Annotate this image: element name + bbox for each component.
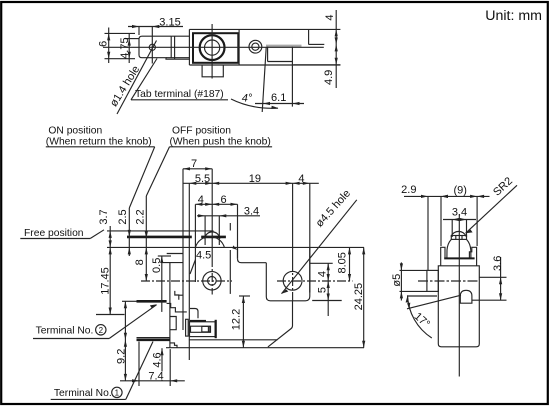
svg-text:4: 4: [198, 194, 204, 206]
svg-text:4: 4: [298, 173, 304, 185]
svg-text:(When push the knob): (When push the knob): [170, 137, 271, 148]
svg-text:3.6: 3.6: [492, 256, 504, 271]
svg-text:0.5: 0.5: [151, 258, 163, 273]
svg-text:19: 19: [249, 173, 261, 185]
svg-text:ø5: ø5: [391, 274, 403, 287]
svg-text:17.45: 17.45: [99, 267, 111, 295]
svg-text:(When return the knob): (When return the knob): [46, 137, 152, 148]
svg-text:6: 6: [97, 41, 109, 47]
svg-text:5: 5: [317, 287, 329, 293]
svg-text:24.25: 24.25: [353, 283, 365, 311]
svg-text:Tab terminal (#187): Tab terminal (#187): [135, 89, 224, 100]
svg-text:2.9: 2.9: [401, 184, 416, 196]
svg-text:6: 6: [220, 194, 226, 206]
svg-text:OFF position: OFF position: [172, 126, 231, 137]
svg-text:4.6: 4.6: [152, 352, 164, 367]
svg-text:4°: 4°: [242, 93, 253, 105]
svg-text:3.4: 3.4: [244, 205, 259, 217]
svg-text:2: 2: [99, 326, 104, 335]
svg-text:8: 8: [134, 259, 146, 265]
svg-text:4.9: 4.9: [323, 70, 335, 85]
svg-text:7.4: 7.4: [148, 371, 163, 383]
svg-text:7: 7: [191, 158, 197, 170]
svg-text:ON position: ON position: [48, 126, 102, 137]
svg-text:6.1: 6.1: [271, 92, 286, 104]
svg-text:12.2: 12.2: [231, 309, 243, 330]
svg-text:9.2: 9.2: [116, 349, 128, 364]
svg-text:8.05: 8.05: [337, 252, 349, 273]
svg-text:2.2: 2.2: [135, 209, 147, 224]
svg-text:3.7: 3.7: [98, 209, 110, 224]
svg-text:4: 4: [317, 271, 329, 277]
svg-text:Terminal No.: Terminal No.: [54, 388, 112, 399]
svg-text:4.5: 4.5: [196, 249, 211, 261]
svg-text:2.5: 2.5: [117, 209, 129, 224]
svg-text:3.15: 3.15: [159, 16, 180, 28]
svg-text:5.5: 5.5: [195, 173, 210, 185]
svg-text:(9): (9): [453, 184, 466, 196]
svg-text:Unit: mm: Unit: mm: [485, 8, 542, 24]
svg-text:4: 4: [324, 15, 336, 21]
svg-text:Free position: Free position: [24, 228, 84, 239]
svg-text:Terminal No.: Terminal No.: [36, 326, 94, 337]
svg-text:4.75: 4.75: [119, 37, 131, 58]
svg-text:1: 1: [115, 388, 120, 397]
